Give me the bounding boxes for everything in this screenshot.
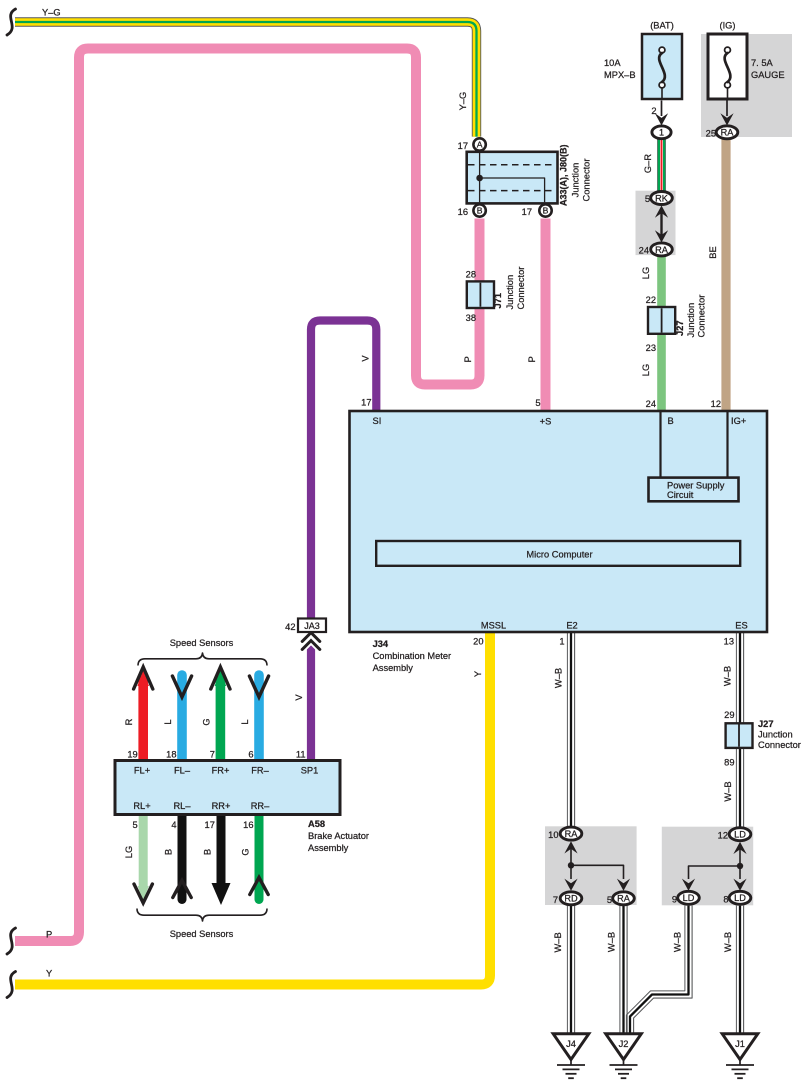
svg-text:LD: LD [734,830,746,840]
svg-text:Combination Meter: Combination Meter [373,651,452,661]
svg-text:SI: SI [373,416,382,426]
svg-text:42: 42 [285,622,295,632]
svg-text:22: 22 [646,295,656,305]
svg-text:5: 5 [535,398,540,408]
svg-text:J34: J34 [373,639,389,649]
svg-text:RR+: RR+ [212,801,231,811]
svg-text:B: B [203,849,213,855]
svg-text:W–B: W–B [553,932,563,952]
svg-text:Connector: Connector [758,740,801,750]
svg-text:18: 18 [166,750,176,760]
svg-text:5: 5 [607,895,612,905]
svg-text:FR+: FR+ [212,766,230,776]
svg-text:Connector: Connector [697,295,707,338]
svg-text:RL–: RL– [173,801,191,811]
svg-text:V: V [361,355,371,362]
svg-text:13: 13 [724,637,734,647]
svg-text:G: G [202,718,212,725]
svg-text:10A: 10A [604,58,621,68]
svg-text:RA: RA [565,829,579,839]
svg-text:P: P [46,930,52,940]
svg-text:Assembly: Assembly [308,843,349,853]
svg-text:Connector: Connector [516,267,526,310]
svg-text:RK: RK [655,193,669,203]
svg-text:V: V [294,694,304,701]
svg-text:J27: J27 [758,719,774,729]
svg-text:L: L [163,719,173,724]
svg-text:W–B: W–B [673,932,683,952]
svg-text:IG+: IG+ [731,416,746,426]
svg-text:Y: Y [473,671,483,677]
svg-text:8: 8 [723,895,728,905]
svg-text:B: B [477,206,483,216]
svg-text:RA: RA [617,894,631,904]
svg-text:LD: LD [683,893,695,903]
svg-text:B: B [668,416,674,426]
svg-text:Junction: Junction [686,303,696,338]
svg-text:FR–: FR– [251,766,269,776]
svg-text:17: 17 [522,207,532,217]
svg-text:RA: RA [655,245,669,255]
svg-text:R: R [124,718,134,725]
svg-text:16: 16 [458,207,468,217]
svg-text:+S: +S [540,417,552,427]
svg-text:A: A [477,140,483,150]
svg-text:ES: ES [735,621,747,631]
svg-text:38: 38 [466,313,476,323]
svg-text:W–B: W–B [607,932,617,952]
svg-text:SP1: SP1 [301,766,319,776]
svg-text:J2: J2 [619,1039,629,1049]
svg-text:LD: LD [734,893,746,903]
svg-text:W–B: W–B [554,668,564,688]
svg-text:W–B: W–B [723,666,733,686]
svg-text:P: P [463,356,473,362]
svg-text:G: G [241,848,251,855]
svg-text:Circuit: Circuit [667,490,694,500]
svg-text:RD: RD [564,894,578,904]
svg-text:1: 1 [659,128,664,138]
svg-text:9: 9 [672,895,677,905]
svg-text:5: 5 [133,820,138,830]
svg-text:J71: J71 [493,293,503,309]
svg-text:17: 17 [205,820,215,830]
svg-text:Y–G: Y–G [42,8,61,18]
svg-text:LG: LG [124,846,134,858]
svg-text:6: 6 [248,750,253,760]
svg-text:7: 7 [553,895,558,905]
svg-text:Power Supply: Power Supply [667,480,725,490]
svg-text:L: L [240,719,250,724]
svg-text:17: 17 [361,398,371,408]
svg-text:RA: RA [721,128,735,138]
svg-text:7: 7 [210,750,215,760]
svg-text:FL+: FL+ [134,766,150,776]
svg-text:Speed Sensors: Speed Sensors [170,929,234,939]
svg-text:Assembly: Assembly [373,663,414,673]
svg-text:GAUGE: GAUGE [751,70,785,80]
svg-text:5: 5 [645,194,650,204]
svg-text:(BAT): (BAT) [650,21,674,31]
svg-text:A58: A58 [308,819,325,829]
svg-text:10: 10 [548,830,558,840]
svg-text:MPX–B: MPX–B [604,70,636,80]
svg-text:Y: Y [46,969,52,979]
svg-text:23: 23 [646,343,656,353]
svg-text:W–B: W–B [723,781,733,801]
svg-text:Speed Sensors: Speed Sensors [170,638,234,648]
svg-text:J27: J27 [675,320,685,336]
svg-text:19: 19 [127,750,137,760]
svg-text:W–B: W–B [723,932,733,952]
svg-text:24: 24 [646,399,656,409]
svg-text:(IG): (IG) [719,21,735,31]
svg-text:25: 25 [706,129,716,139]
svg-text:Junction: Junction [505,275,515,310]
svg-text:G–R: G–R [643,154,653,173]
svg-text:RL+: RL+ [133,801,150,811]
svg-text:24: 24 [639,246,649,256]
svg-text:P: P [527,356,537,362]
svg-text:89: 89 [724,758,734,768]
svg-text:J4: J4 [566,1039,576,1049]
svg-text:12: 12 [711,399,721,409]
svg-text:17: 17 [458,141,468,151]
svg-text:J1: J1 [735,1039,745,1049]
svg-text:7. 5A: 7. 5A [751,58,774,68]
svg-text:16: 16 [243,820,253,830]
svg-text:JA3: JA3 [304,621,320,631]
svg-text:4: 4 [171,820,176,830]
svg-text:20: 20 [473,637,483,647]
svg-text:B: B [164,849,174,855]
svg-text:12: 12 [718,831,728,841]
svg-text:BE: BE [708,246,718,258]
svg-text:28: 28 [466,270,476,280]
svg-text:29: 29 [724,710,734,720]
svg-text:FL–: FL– [174,766,191,776]
svg-text:Brake Actuator: Brake Actuator [308,831,369,841]
svg-text:E2: E2 [566,621,577,631]
svg-text:Y–G: Y–G [458,92,468,111]
svg-text:1: 1 [559,637,564,647]
svg-text:Junction: Junction [758,730,793,740]
svg-text:11: 11 [296,750,306,760]
svg-text:RR–: RR– [251,801,270,811]
svg-text:LG: LG [641,267,651,279]
svg-text:2: 2 [651,106,656,116]
svg-text:Connector: Connector [582,159,592,202]
svg-text:Micro Computer: Micro Computer [526,549,592,559]
svg-text:A33(A), J80(B): A33(A), J80(B) [559,144,569,206]
svg-text:LG: LG [641,364,651,376]
svg-text:Junction: Junction [571,163,581,198]
svg-text:B: B [543,206,549,216]
svg-text:MSSL: MSSL [481,621,506,631]
